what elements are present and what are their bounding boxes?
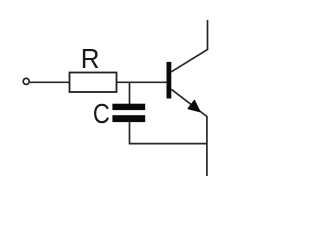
wire input to resistor: [30, 81, 69, 83]
transistor Q1 collector: [171, 20, 207, 72]
wire capacitor to emitter: [130, 122, 208, 144]
wire node to capacitor: [129, 82, 131, 104]
transistor Q1 emitter: [171, 89, 207, 176]
wire resistor to base: [117, 81, 167, 83]
svg-text:R: R: [81, 43, 100, 74]
transistor Q1 base bar: [167, 62, 172, 99]
resistor R1: [70, 73, 117, 93]
input terminal: [23, 78, 29, 84]
capacitor C top plate: [112, 104, 145, 110]
capacitor C bottom plate: [112, 115, 145, 122]
transistor Q1 emitter arrow: [188, 101, 200, 112]
svg-text:C: C: [93, 99, 110, 129]
